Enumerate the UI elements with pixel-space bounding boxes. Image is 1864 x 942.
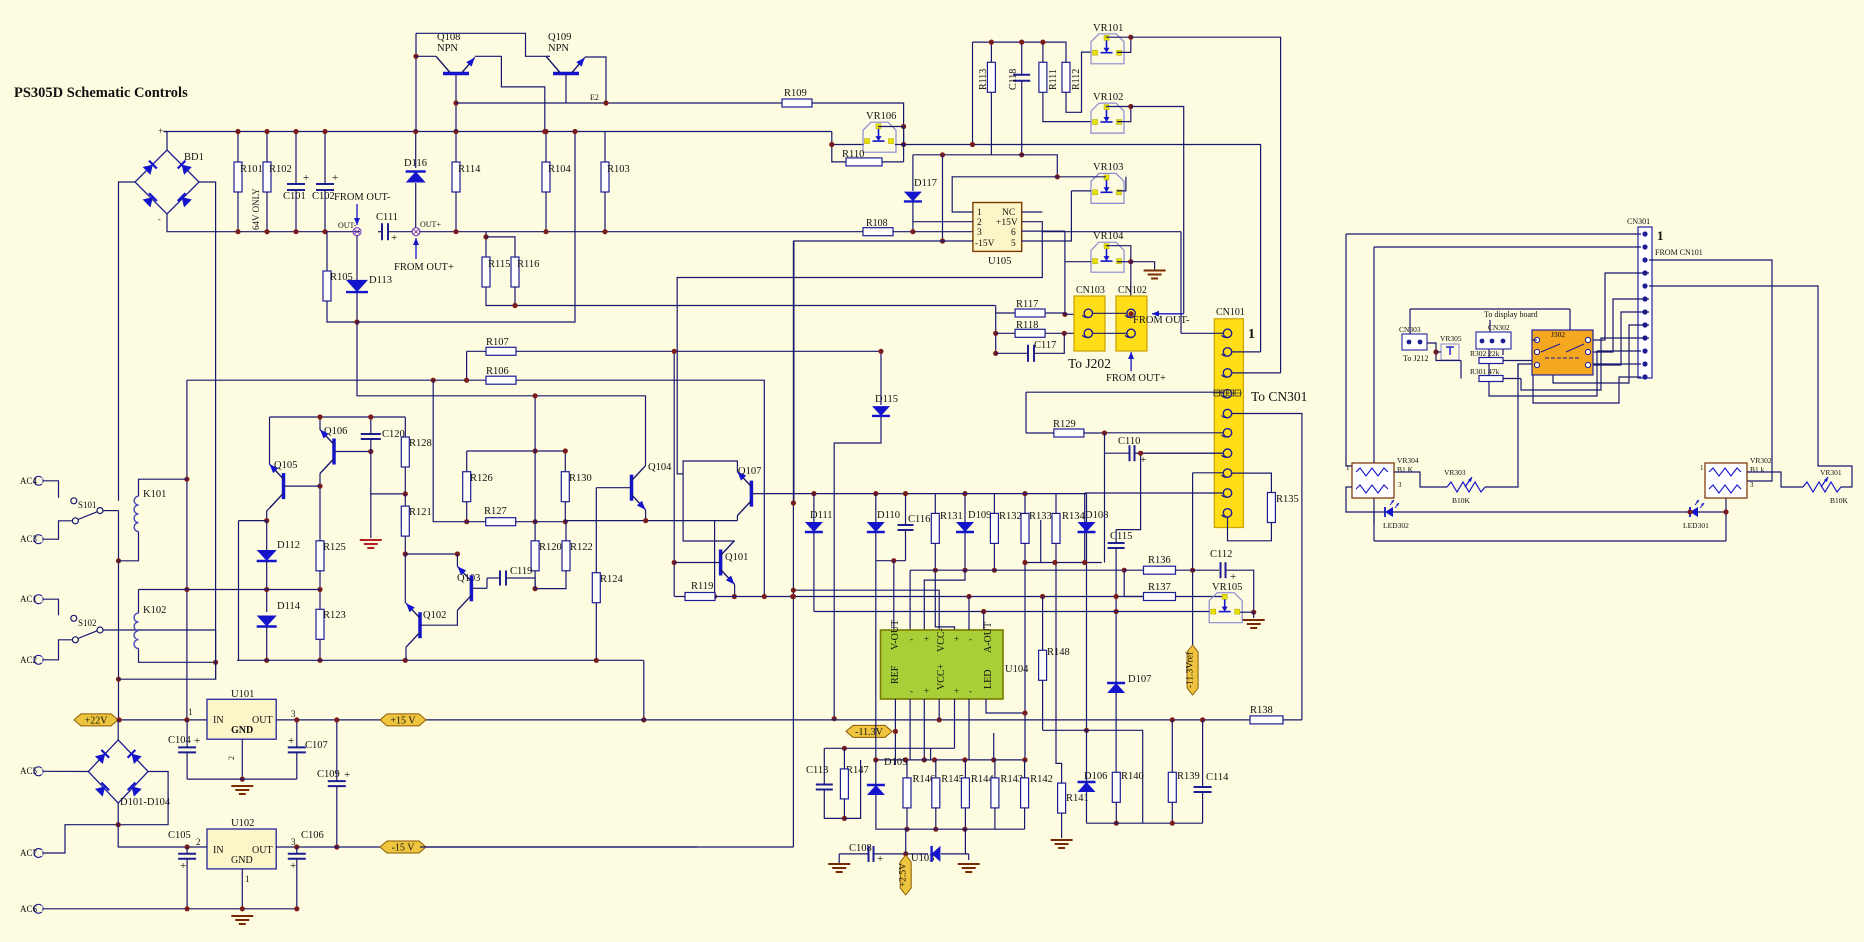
diode D106 <box>1078 782 1096 792</box>
wire CN301 pin10 to CN302 <box>1489 349 1641 396</box>
ground at R141 <box>1051 840 1073 848</box>
label Q101 <box>725 552 748 563</box>
svg-text:CN302: CN302 <box>1488 323 1510 332</box>
wire bracket to CN303 <box>1409 309 1411 334</box>
label Q108 <box>437 32 460 43</box>
label D116 <box>404 158 427 169</box>
junction R124 rail <box>594 658 599 663</box>
label R140 <box>1121 771 1144 782</box>
label CN103 <box>1076 285 1105 296</box>
svg-text:+: + <box>158 126 163 136</box>
label D107 <box>1128 674 1151 685</box>
svg-text:FROM OUT+: FROM OUT+ <box>394 262 454 273</box>
junction Q103 base node <box>533 586 538 591</box>
junction -15V pin tie <box>940 238 945 243</box>
wire R104 bottom <box>545 192 547 232</box>
wire C101 bottom <box>295 190 297 232</box>
junction R102 top bus <box>264 129 269 134</box>
svg-text:+15V: +15V <box>996 218 1018 228</box>
label OUT- <box>338 221 357 230</box>
svg-text:-: - <box>969 686 972 696</box>
junction U101 IN node <box>184 717 189 722</box>
wire bus2 down to CN101 pin1 <box>1180 232 1182 334</box>
wire C118 bottom stub <box>1021 81 1023 155</box>
label R103 <box>607 164 630 175</box>
svg-text:6: 6 <box>1011 228 1016 238</box>
wire VR104 net down to CN102 pin1 <box>1130 262 1132 314</box>
label AC7 <box>20 848 38 858</box>
label CN302 <box>1488 323 1510 332</box>
junction R131 R136 line <box>933 568 938 573</box>
wire bottom rail <box>237 659 644 661</box>
wire bridge left corner down to S101 common <box>119 182 136 501</box>
svg-text:CN303: CN303 <box>1399 325 1421 334</box>
transistor Q108 <box>436 56 475 73</box>
wire R136 left stub <box>1124 569 1143 571</box>
svg-text:R141: R141 <box>1066 793 1089 804</box>
wire bridge bottom to second bus <box>167 214 168 232</box>
label AC4 <box>20 476 38 486</box>
wire D110 bottom <box>875 533 877 561</box>
label U102 pin3 num <box>291 837 296 847</box>
resistor R141 <box>1058 783 1066 813</box>
junction D112 top node <box>264 518 269 523</box>
wire OUT- to C111 <box>378 231 381 233</box>
wire C110 right to pin7 <box>1135 452 1223 454</box>
pin CN101-10 <box>1222 509 1232 517</box>
resistor R104 <box>542 162 550 192</box>
label R116 <box>517 259 539 270</box>
wire R102 bottom <box>266 192 268 232</box>
label C114 <box>1206 772 1229 783</box>
label R125 <box>323 542 346 553</box>
label VR101 <box>1093 23 1123 34</box>
wire Q105 Q106 rail <box>270 416 406 418</box>
label AC6 <box>20 904 38 914</box>
label C112 <box>1210 549 1232 560</box>
svg-text:VR106: VR106 <box>866 111 896 122</box>
label C120 <box>382 429 405 440</box>
svg-text:+: + <box>954 686 959 696</box>
resistor R146 <box>903 778 911 808</box>
label U104 <box>1005 664 1029 675</box>
wire R114 bottom <box>455 192 457 232</box>
label U105 <box>988 256 1011 267</box>
svg-text:U102: U102 <box>231 818 254 829</box>
pin CN303-1 <box>1407 340 1412 345</box>
wire R136 right to C112 <box>1176 569 1220 571</box>
junction C101 top bus <box>293 129 298 134</box>
svg-text:R140: R140 <box>1121 771 1144 782</box>
label Q102 <box>423 610 446 621</box>
label C105 <box>168 830 191 841</box>
wire R121 top stub <box>404 494 406 506</box>
label C110 <box>1118 436 1140 447</box>
svg-text:B10K: B10K <box>1452 496 1471 505</box>
diode D115 <box>872 406 890 416</box>
wire R127 node to R122 top <box>535 521 566 523</box>
wire top bus <box>164 131 832 133</box>
label D115 <box>875 394 898 405</box>
wire C108 left <box>839 853 868 855</box>
pin CN301-4 <box>1642 270 1647 275</box>
resistor R128 <box>401 437 409 467</box>
wire C114 top stub <box>1202 720 1204 787</box>
wire VR103 wiper line left <box>1058 176 1106 178</box>
wire pin2 vertical tail <box>1373 512 1375 524</box>
svg-text:K101: K101 <box>143 489 166 500</box>
junction VR102 net <box>1128 104 1133 109</box>
wire C117 left <box>996 352 1028 354</box>
wire R106 line drop to R127 row <box>433 380 467 522</box>
junction Q108 base E2 line <box>453 100 458 105</box>
diode BD1 top-right element <box>178 161 192 175</box>
junction R139 +15V <box>1170 717 1175 722</box>
svg-text:R114: R114 <box>458 164 481 175</box>
wire VR105 left pin line <box>1116 611 1210 613</box>
junction -15V net tap <box>791 588 796 593</box>
resistor R119 <box>685 593 715 601</box>
op-amp U105 <box>973 203 1022 252</box>
resistor R125 <box>316 541 324 571</box>
junction R121 bottom <box>403 551 408 556</box>
capacitor C104 plus <box>194 735 200 747</box>
svg-text:+: + <box>303 172 309 184</box>
svg-text:GND: GND <box>231 725 253 736</box>
wire R142 bottom <box>1024 808 1026 829</box>
label U101 <box>231 689 254 700</box>
label D105 <box>884 757 907 768</box>
resistor R110 <box>846 158 882 166</box>
connector CN102 <box>1116 296 1147 351</box>
wire R117 left stub <box>996 312 1015 314</box>
label R136 <box>1148 555 1171 566</box>
label R146 <box>913 774 936 785</box>
junction R128 R121 <box>403 491 408 496</box>
svg-text:Q104: Q104 <box>648 462 672 473</box>
svg-text:AC1: AC1 <box>20 594 37 604</box>
svg-text:B1 k: B1 k <box>1750 465 1765 474</box>
svg-text:AC3: AC3 <box>20 534 38 544</box>
label U101 pin1 num <box>188 707 193 717</box>
wire R122 top stub <box>565 522 567 541</box>
svg-text:To J212: To J212 <box>1403 354 1428 363</box>
svg-text:C107: C107 <box>305 740 328 751</box>
resistor R127 <box>486 518 516 526</box>
svg-text:R301 47k: R301 47k <box>1470 367 1500 376</box>
label U105 NC <box>1002 208 1015 218</box>
ground at U101 <box>231 786 253 794</box>
pin CN101-6 <box>1222 429 1232 437</box>
label D112 <box>277 540 300 551</box>
diode D116 <box>406 172 426 183</box>
label Q109 NPN <box>548 43 569 54</box>
wire VR104 left vertical <box>1064 231 1066 314</box>
transistor Q103 <box>457 566 471 610</box>
wire VR104 left pin line <box>1065 261 1091 263</box>
label U104 sign <box>924 686 929 696</box>
label R120 <box>539 542 562 553</box>
junction R123 rail <box>317 658 322 663</box>
wire R103 top <box>604 132 606 163</box>
wire R137 right to VR105 wiper <box>1176 597 1224 600</box>
svg-text:C119: C119 <box>510 566 532 577</box>
svg-text:R135: R135 <box>1276 494 1299 505</box>
svg-text:A-OUT: A-OUT <box>983 622 994 653</box>
wire R117 left drop <box>995 306 997 354</box>
wire R103 bottom <box>604 192 606 232</box>
label R124 <box>600 574 624 585</box>
IC U104 <box>881 630 1004 699</box>
svg-text:R125: R125 <box>323 542 346 553</box>
label BD1 <box>184 152 204 163</box>
wire Q109 emitter to E2 line <box>585 57 606 103</box>
svg-text:+: + <box>194 735 200 747</box>
label R113 <box>978 69 989 90</box>
diode D112 <box>257 550 277 561</box>
label U101 pin3 num <box>291 709 296 719</box>
junction D115 +15V <box>832 716 837 721</box>
pin CN101-5 <box>1222 409 1232 417</box>
label VR304 1 <box>1346 464 1350 472</box>
resistor R301 <box>1479 376 1503 382</box>
wire R116 top tie <box>486 237 515 257</box>
wire node down to mid rail <box>357 322 646 396</box>
wire VR303 right up <box>1485 364 1518 487</box>
net flag +2.5V <box>899 855 912 895</box>
wire R144 bottom <box>964 808 966 829</box>
relay J302 <box>1532 330 1593 375</box>
wire C110 left <box>1105 433 1130 453</box>
connector CN101 <box>1214 319 1243 528</box>
label R119 <box>691 581 713 592</box>
wire R128 top stub <box>404 417 406 437</box>
label Q104 <box>648 462 672 473</box>
svg-text:R145: R145 <box>941 774 964 785</box>
label R112 <box>1071 69 1082 90</box>
wire D112 node left <box>239 520 267 522</box>
label bridge minus <box>158 215 161 224</box>
junction U104 pin riser <box>966 594 971 599</box>
svg-text:BD1: BD1 <box>184 152 204 163</box>
junction D109 R136 line <box>962 568 967 573</box>
wire VR106 right pin stub <box>895 144 904 146</box>
svg-text:R117: R117 <box>1016 299 1038 310</box>
wire R113 bottom to D117 net <box>990 92 992 155</box>
junction R106 drop <box>762 594 767 599</box>
junction R107 line x674 <box>672 349 677 354</box>
wire Q105 base line <box>284 485 321 487</box>
junction R126 line x535 <box>533 448 538 453</box>
label LED301 <box>1683 521 1709 530</box>
svg-text:3: 3 <box>977 228 982 238</box>
junction +22V bridge <box>117 717 122 722</box>
node OUT- terminal <box>353 228 361 236</box>
label C101 <box>283 191 306 202</box>
junction C106 -15V <box>294 844 299 849</box>
capacitor C119 <box>500 571 506 586</box>
svg-text:-: - <box>158 215 161 224</box>
label U102 <box>231 818 254 829</box>
svg-text:+: + <box>391 232 397 244</box>
svg-text:VR103: VR103 <box>1093 162 1123 173</box>
label 64V ONLY <box>251 188 261 230</box>
resistor R115 <box>482 257 490 287</box>
switch S101 <box>71 498 103 524</box>
svg-text:FROM OUT+: FROM OUT+ <box>1106 373 1166 384</box>
junction C110 tap <box>1102 430 1107 435</box>
label U104 V-OUT <box>890 620 901 650</box>
wire E2 base line <box>456 102 782 104</box>
junction bridge bottom AC7 <box>116 822 121 827</box>
junction cluster net tie <box>970 142 975 147</box>
capacitor C102 plus <box>332 172 338 184</box>
label R115 <box>488 259 510 270</box>
wire D108 top stub <box>1086 494 1088 522</box>
wire R139 top stub <box>1171 720 1173 772</box>
svg-text:C113: C113 <box>806 765 828 776</box>
wire C113 top stub <box>823 748 825 784</box>
label VR302 1 <box>1700 464 1704 472</box>
pot VR303 <box>1447 477 1485 492</box>
label FROM OUT- right <box>1133 315 1190 326</box>
wire R105 bottom to D113 node <box>327 301 357 322</box>
wire AC4 to S101 <box>43 481 59 498</box>
wire bottom return line <box>1374 540 1726 542</box>
diode D113 <box>346 280 368 292</box>
wire AC2 to S102 <box>43 640 72 660</box>
pot VR301 <box>1803 477 1841 492</box>
capacitor C101 plus <box>303 172 309 184</box>
terminal AC5 <box>34 767 43 776</box>
connector CN302 <box>1476 332 1511 349</box>
wire CN101 pin7 left <box>1137 452 1223 454</box>
junction VR106 right pin tie <box>901 142 906 147</box>
svg-text:+: + <box>344 769 350 781</box>
wire Q101 line right long <box>736 596 1144 598</box>
junction K101 bottom tie <box>116 558 121 563</box>
wire D115 down to +15V rail <box>834 417 881 719</box>
diode D101 element <box>95 750 109 764</box>
label C115 <box>1110 531 1132 542</box>
wire Q108 base lead down <box>455 75 457 132</box>
wire +15V line left segment <box>276 719 644 721</box>
pin CN101-3 <box>1222 369 1232 377</box>
svg-text:R139: R139 <box>1177 771 1200 782</box>
ground at U103 <box>958 864 980 872</box>
junction R140 bottom row <box>1114 821 1119 826</box>
wire R130 bottom stub <box>564 502 566 522</box>
wire C105 top <box>186 847 188 854</box>
wire R140 bottom stub <box>1115 802 1117 823</box>
wire R137 left tie <box>1124 570 1143 596</box>
svg-text:D115: D115 <box>875 394 898 405</box>
svg-text:R136: R136 <box>1148 555 1171 566</box>
svg-text:LED302: LED302 <box>1383 521 1409 530</box>
label R104 <box>548 164 572 175</box>
wire R146 top stub <box>906 760 908 778</box>
wire D112 top stub <box>266 521 268 551</box>
svg-text:+: + <box>1140 454 1146 466</box>
label U102 OUT <box>252 845 273 856</box>
svg-text:+: + <box>180 860 186 872</box>
label U104 LED <box>983 670 994 689</box>
label FROM OUT- top <box>334 192 391 203</box>
label K101 <box>143 489 166 500</box>
svg-text:R131: R131 <box>940 511 963 522</box>
label VR302 <box>1750 456 1772 465</box>
wire R104 top <box>545 132 547 163</box>
capacitor C105 plus <box>180 860 186 872</box>
label VR304 B1K <box>1397 465 1414 474</box>
svg-text:VR302: VR302 <box>1750 456 1772 465</box>
wire VR106 wiper to R109 node <box>878 127 904 162</box>
wire Q107 emitter to Q101 collector loop <box>683 461 737 541</box>
junction VR106 wiper tie <box>901 124 906 129</box>
wire riser to U105 -15V pin <box>942 155 944 241</box>
svg-text:-15V: -15V <box>975 239 995 249</box>
wire R130 top stub <box>564 451 566 472</box>
junction left net tie <box>116 677 121 682</box>
label VR302 B1k <box>1750 465 1765 474</box>
wire -15V riser full <box>792 241 794 847</box>
wire R144 top stub <box>964 760 966 778</box>
wire R126 top stub <box>466 451 468 472</box>
capacitor C120 <box>361 434 381 439</box>
junction C102 top bus <box>322 129 327 134</box>
svg-text:R110: R110 <box>842 149 864 160</box>
junction -15V Q101 line <box>791 594 796 599</box>
svg-text:D105: D105 <box>884 757 907 768</box>
svg-text:R137: R137 <box>1148 582 1171 593</box>
wire CN301 pin9 to R301 <box>1521 338 1649 390</box>
label R139 <box>1177 771 1200 782</box>
label R126 <box>470 473 493 484</box>
wire right drop to left net <box>119 630 216 679</box>
label D109 <box>968 510 991 521</box>
svg-text:R143: R143 <box>1000 774 1023 785</box>
junction C105 gnd <box>185 906 190 911</box>
label CN101 1 <box>1248 327 1255 342</box>
label AC2 <box>20 655 37 665</box>
pin CN101-7 <box>1222 449 1232 457</box>
junction D110 top <box>873 491 878 496</box>
resistor R102 <box>263 162 271 192</box>
wire U101 gnd row <box>187 778 297 780</box>
wire R119 left <box>674 596 685 598</box>
label R129 <box>1053 419 1076 430</box>
wire D106 bottom stub <box>1086 792 1088 823</box>
svg-text:VR303: VR303 <box>1444 468 1466 477</box>
wire C114 bottom stub <box>1202 792 1204 823</box>
junction -15V net cross <box>790 594 795 599</box>
junction R104 bottom <box>543 229 548 234</box>
diode BD1 bottom-left element <box>143 193 157 207</box>
resistor R132 <box>990 513 998 543</box>
label AC5 <box>20 766 38 776</box>
svg-text:+2.5V: +2.5V <box>899 863 909 887</box>
wire C109 top <box>336 720 338 781</box>
wire -15V to VCC- riser <box>793 590 939 630</box>
junction -15V rail tie <box>791 500 796 505</box>
label R147 <box>846 765 869 776</box>
svg-text:VCC+: VCC+ <box>936 663 947 690</box>
svg-text:AC2: AC2 <box>20 655 37 665</box>
junction R119 right <box>732 594 737 599</box>
wire Q105 collector down <box>267 508 270 520</box>
svg-text:R109: R109 <box>784 88 807 99</box>
wire Q108 emitter to R104 bus <box>475 56 545 131</box>
